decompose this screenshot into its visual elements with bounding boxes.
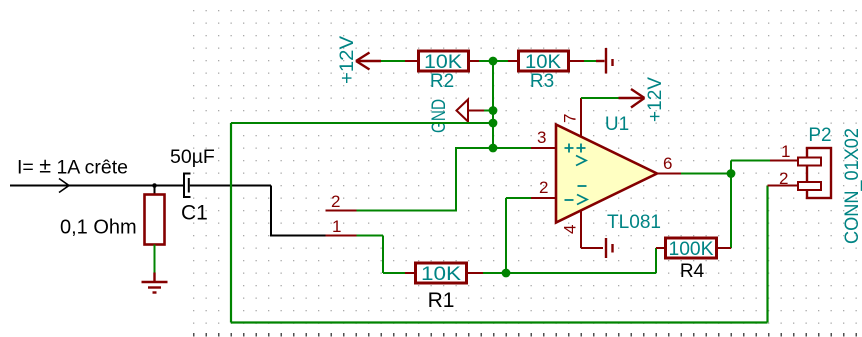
pin 6 stub	[657, 173, 681, 175]
wire stub1 down	[382, 236, 384, 274]
resistor R2	[419, 51, 469, 71]
junction gnd	[489, 106, 498, 115]
arrowhead on input wire	[59, 179, 69, 193]
junction pin3	[489, 144, 498, 153]
+12V power arrow (left)	[356, 53, 381, 70]
wire pin3 row	[456, 147, 531, 149]
svg-text:P2: P2	[808, 125, 831, 146]
resistor R1 lead right	[467, 272, 484, 274]
pin 7 stub	[580, 98, 582, 137]
wire pin7	[581, 97, 619, 99]
resistor 0,1 Ohm (shunt)	[145, 195, 165, 245]
ground (shunt)	[142, 273, 168, 293]
wire junction down to R4	[730, 174, 732, 249]
svg-text:2: 2	[331, 192, 340, 211]
ground GND power arrow (mid)	[457, 100, 485, 122]
junction output	[727, 169, 736, 178]
svg-text:R4: R4	[680, 261, 705, 282]
wire bend up to R4	[655, 248, 657, 273]
svg-text:TL081: TL081	[607, 212, 661, 233]
resistor R2 lead right	[469, 60, 480, 62]
ground GND (top right)	[596, 48, 613, 74]
resistor R1	[416, 263, 467, 283]
wire to shunt resistor	[154, 186, 156, 195]
wire divider junction down	[492, 61, 494, 148]
junction divider	[489, 57, 498, 66]
opamp V- label	[577, 186, 587, 205]
svg-text:4: 4	[561, 225, 580, 234]
resistor R3	[519, 51, 569, 71]
wire to R1	[383, 272, 406, 274]
pin 3 stub	[531, 147, 556, 149]
ground GND (pin4)	[606, 238, 613, 258]
svg-text:2: 2	[539, 178, 548, 197]
svg-text:GND: GND	[429, 99, 450, 133]
wire R3 to GND	[584, 60, 596, 62]
svg-text:10K: 10K	[525, 52, 561, 73]
wire gnd arrow to junction	[484, 110, 493, 112]
svg-text:R2: R2	[430, 71, 454, 92]
resistor R1 lead left	[405, 272, 415, 274]
wire pin4 to gnd	[581, 247, 603, 249]
junction loop top	[489, 119, 498, 128]
connector P2 pin2 pad	[798, 182, 821, 190]
svg-text:10K: 10K	[421, 264, 461, 285]
wire to pin 1 stub	[270, 235, 327, 237]
resistor R2 lead left	[405, 60, 418, 62]
svg-text:1: 1	[332, 217, 341, 236]
svg-text:R3: R3	[530, 71, 554, 92]
connector P2 pin2 stub	[768, 185, 801, 187]
resistor R4 lead right	[717, 247, 732, 249]
svg-text:3: 3	[537, 128, 546, 147]
connector P2 pin1 stub	[770, 160, 800, 162]
wire junction up	[730, 161, 732, 174]
svg-text:1: 1	[781, 142, 790, 161]
svg-text:C1: C1	[181, 202, 208, 225]
wire shunt to ground	[154, 245, 156, 273]
svg-text:100K: 100K	[669, 239, 714, 260]
pin 2 stub	[531, 197, 556, 199]
wire to P2 pin1	[731, 160, 770, 162]
svg-text:50µF: 50µF	[170, 146, 215, 168]
connector P2 body	[807, 148, 831, 198]
pin 1 stub	[326, 235, 357, 237]
wire loop left	[230, 123, 232, 323]
wire junction to R4 bend	[510, 272, 656, 274]
pin 4 stub	[580, 210, 582, 248]
+12V power arrow (right)	[619, 89, 645, 108]
wire pin2 row	[506, 197, 531, 199]
wire loop top	[231, 122, 493, 124]
opamp V+ label	[576, 144, 586, 166]
svg-text:CONN_01X02: CONN_01X02	[842, 128, 862, 244]
wire input line	[10, 185, 184, 187]
wire R1 to junction	[483, 272, 510, 274]
wire +12V to R2	[381, 60, 407, 62]
svg-text:7: 7	[561, 114, 580, 123]
capacitor C1	[184, 174, 191, 198]
svg-text:I= ± 1A crête: I= ± 1A crête	[17, 154, 128, 179]
svg-text:+12V: +12V	[645, 77, 666, 122]
svg-text:+12V: +12V	[337, 36, 358, 84]
op-amp U1 body	[556, 125, 657, 223]
svg-text:R1: R1	[428, 289, 455, 312]
wire junction up to pin2	[505, 198, 507, 273]
wire pin6 to junction	[681, 173, 731, 175]
wire vertical down	[270, 186, 272, 236]
wire C1 to corner	[190, 185, 271, 187]
wire loop bottom	[231, 321, 768, 323]
connector P2 pin1 pad	[798, 158, 821, 166]
wire stub2 right	[357, 210, 457, 212]
pin 2 stub	[326, 210, 357, 212]
svg-text:2: 2	[779, 169, 788, 188]
wire stub1 right	[357, 235, 384, 237]
resistor R3 lead right	[569, 60, 585, 62]
opamp input - label	[565, 199, 574, 201]
node junction on input wire	[152, 183, 157, 188]
resistor R3 lead left	[508, 60, 519, 62]
svg-text:0,1 Ohm: 0,1 Ohm	[60, 217, 137, 239]
resistor R4	[666, 238, 717, 258]
wire stub2 up	[455, 147, 457, 212]
wire R2 to R3	[479, 60, 508, 62]
svg-text:U1: U1	[605, 114, 629, 135]
junction R1/feedback	[502, 269, 511, 278]
opamp input + label	[565, 144, 574, 153]
wire loop right up	[766, 186, 768, 323]
resistor R4 lead left	[656, 247, 665, 249]
svg-text:6: 6	[663, 154, 672, 173]
svg-text:10K: 10K	[424, 52, 462, 73]
